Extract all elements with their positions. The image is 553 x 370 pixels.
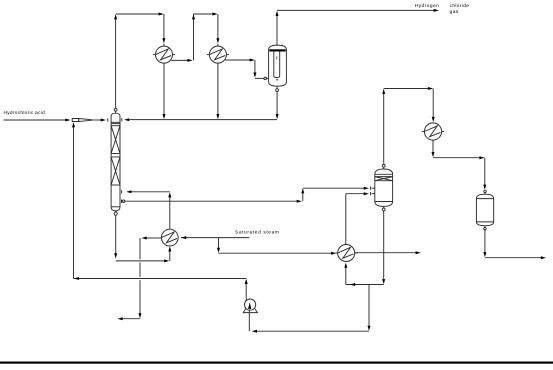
node V1 inlet nozzle [264, 77, 269, 80]
wire V1 bottoms drop [276, 93, 279, 120]
wire reboiler vapour return [122, 190, 172, 229]
wire pump suction [249, 285, 370, 333]
svg-text:Saturated steam: Saturated steam [235, 230, 280, 236]
vessel V3 top nozzle [484, 190, 486, 194]
wire E2 outlet to absorber V1 [225, 59, 264, 79]
wire ejector suction riser [72, 122, 75, 278]
label Hydrogen [415, 3, 439, 9]
column C1 shell [111, 113, 120, 211]
vessel V2 internals [375, 174, 393, 201]
node column feed right arrow [122, 118, 130, 121]
vessel V2 bottom nozzle [382, 206, 385, 212]
wire saturated steam stub [181, 236, 249, 239]
column C1 internal lines [111, 122, 120, 207]
column C1 packing X lower [111, 157, 120, 185]
wire E4 outlet [355, 251, 421, 254]
svg-text:chloride: chloride [450, 3, 470, 9]
wire E4 top riser to V2 [346, 192, 375, 244]
wire steam branch to E4 [217, 238, 336, 255]
svg-text:Hydrogen: Hydrogen [415, 3, 439, 9]
wire reboiler product line [118, 237, 162, 321]
wire E5 outlet to V3 [432, 140, 487, 190]
vessel V3 shell [476, 194, 493, 226]
node column bottoms nozzle [122, 200, 125, 203]
column C1 top nozzle [114, 107, 117, 114]
wire hydrochloric acid feed line [4, 119, 71, 122]
svg-text:Hydrochloric acid: Hydrochloric acid [4, 110, 46, 116]
wire pump discharge riser [245, 279, 248, 301]
wire E2 condensate drop [216, 63, 219, 119]
wire E4 bottom riser [344, 263, 347, 285]
vessel V3 bottom nozzle [484, 226, 486, 231]
svg-text:gas: gas [450, 10, 459, 15]
wire E1 outlet to riser [171, 59, 192, 62]
heat exchanger E5 [422, 123, 444, 140]
label chloride gas [450, 3, 470, 15]
column C1 packing X upper [111, 126, 120, 154]
heat exchanger E3 reboiler [161, 229, 178, 246]
heat exchanger E4 [335, 245, 357, 262]
wire overhead to E1 [116, 13, 166, 47]
vessel V1 shell [269, 45, 287, 86]
wire V1 overhead [276, 9, 439, 45]
vessel V2 bottoms drop [382, 211, 385, 284]
wire ejector outlet to column [91, 118, 108, 121]
vessel V2 shell [375, 169, 393, 206]
heat exchanger E1 [153, 46, 175, 63]
pump P1 [243, 299, 257, 313]
heat exchanger E2 [207, 46, 229, 63]
vessel V1 internal tube [274, 52, 280, 80]
ejector J1 [72, 119, 91, 122]
vessel V1 bottom nozzle [276, 86, 279, 93]
wire column bottom outlet [114, 216, 171, 262]
border title block line [0, 362, 553, 364]
wire riser to E2 [192, 13, 219, 61]
wire V2 bottoms junction [346, 283, 384, 286]
wire E1 condensate drop [163, 63, 166, 119]
wire column overhead riser [114, 14, 117, 106]
label Hydrochloric acid [4, 110, 46, 116]
wire condensate header [129, 119, 277, 121]
label Saturated steam [235, 230, 280, 236]
vessel V1 tube sheet band [269, 49, 285, 51]
wire recycle line to ejector [74, 277, 247, 280]
wire column bottoms to V2 [125, 187, 375, 203]
wire V2 overhead [382, 87, 435, 163]
column C1 bottom nozzle [114, 211, 117, 217]
vessel V2 top nozzle [382, 163, 385, 169]
wire V3 bottoms product [483, 231, 546, 259]
